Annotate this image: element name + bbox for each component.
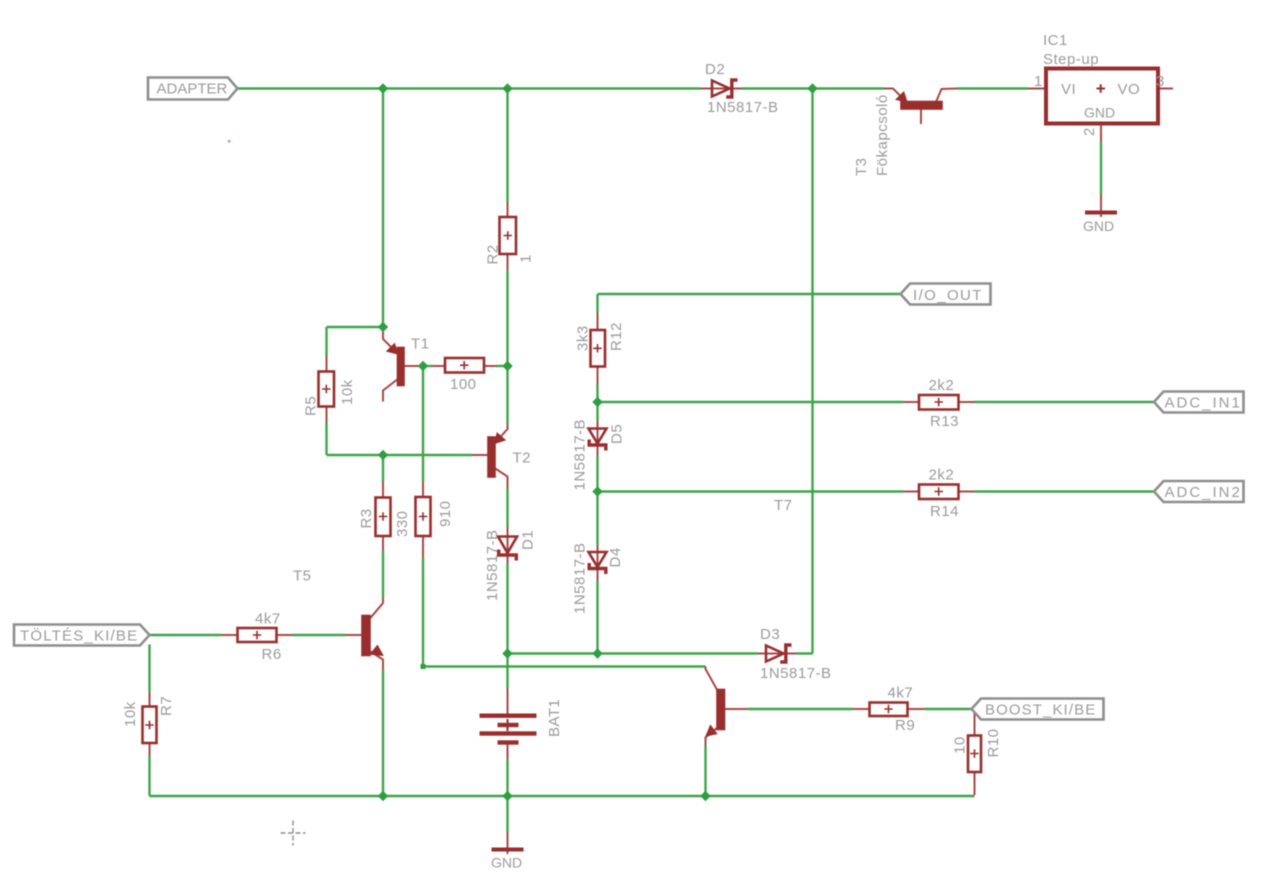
wire vertical x812 <box>811 89 813 654</box>
node junction base row <box>378 450 388 460</box>
wire left column flag down to R7 <box>148 645 150 693</box>
svg-text:D1: D1 <box>520 530 537 550</box>
wire TOLTES flag to R6 <box>150 634 222 636</box>
svg-text:1N5817-B: 1N5817-B <box>707 99 779 116</box>
diode D3 body <box>766 645 792 662</box>
resistor 100 pin left <box>433 365 446 367</box>
svg-text:ADAPTER: ADAPTER <box>157 81 228 98</box>
diode D4 pin bottom <box>597 570 599 582</box>
op-amp IC1 plus sign <box>1097 84 1106 93</box>
resistor R9 body <box>870 703 908 717</box>
transistor T4 body <box>707 690 724 735</box>
svg-text:T7: T7 <box>774 497 793 514</box>
svg-text:Step-up: Step-up <box>1043 51 1099 68</box>
origin dot <box>228 140 230 142</box>
svg-text:1: 1 <box>1034 73 1043 90</box>
svg-text:ADC_IN2: ADC_IN2 <box>1165 484 1242 501</box>
misc marks <box>228 140 306 846</box>
transistor T2 emitter pin <box>495 424 508 444</box>
node junction T1 base <box>418 361 428 371</box>
wire junction366 to T2 emitter <box>506 366 508 424</box>
battery BAT1 pin bottom <box>507 745 509 760</box>
node flag TOLTES_KI/BE <box>14 625 150 646</box>
transistor T5 base pin <box>346 634 363 636</box>
resistor R5 body <box>319 372 335 407</box>
ground pin bottom GND <box>507 832 509 854</box>
svg-text:10k: 10k <box>122 701 139 727</box>
resistor R3 pin top <box>382 482 384 498</box>
wire ADC_IN2 row right <box>975 490 1155 492</box>
transistor T5 body <box>363 616 382 655</box>
diode D5 pin bottom <box>597 446 599 456</box>
diode D1 body <box>498 537 517 561</box>
transistor T1 collector pin <box>383 379 399 402</box>
wire ADC_IN2 row left <box>598 490 904 492</box>
transistor T3 collector pin <box>936 89 957 103</box>
svg-text:330: 330 <box>394 510 411 537</box>
transistor T4 emitter pin <box>706 728 718 747</box>
wire net top: T3 to IC1 pin VI <box>957 87 1028 89</box>
resistor R14 pin left <box>904 491 920 493</box>
wire T4 emitter to rail <box>704 746 706 796</box>
svg-text:2k2: 2k2 <box>929 377 955 394</box>
node flag ADC_IN2 <box>1154 481 1244 502</box>
flags <box>14 78 1244 720</box>
wire junction423 to 910 <box>422 366 424 482</box>
resistor R5 pin top <box>326 356 328 372</box>
node flag BOOST_KI/BE <box>972 699 1104 720</box>
wire R3 to T5 collector <box>382 551 384 599</box>
node flag ADAPTER <box>148 78 238 100</box>
wire junction491 to D4 <box>596 492 598 546</box>
svg-text:1N5817-B: 1N5817-B <box>572 419 589 491</box>
ground pin IC1 GND <box>1100 194 1102 217</box>
svg-text:T1: T1 <box>411 336 430 353</box>
transistor T3 emitter pin <box>884 89 907 103</box>
svg-text:D5: D5 <box>609 424 626 444</box>
resistor R12 body <box>591 330 606 367</box>
wire junction653 to BAT1 <box>506 654 508 689</box>
svg-text:R3: R3 <box>358 508 375 528</box>
transistor T3 base stub <box>920 109 922 125</box>
wire x507 top to R2 <box>506 89 508 203</box>
svg-text:GND: GND <box>491 855 522 871</box>
PINS <box>150 89 1174 855</box>
transistor T4 base pin <box>724 708 747 710</box>
wire vertical x383 top <box>382 89 384 328</box>
node junction BAT top <box>502 648 512 658</box>
svg-text:Fökapcsoló: Fökapcsoló <box>874 94 891 176</box>
svg-text:10k: 10k <box>339 379 356 405</box>
diode D4 body <box>589 552 607 574</box>
wire I/O_OUT horizontal y294 <box>598 293 901 295</box>
node junction ADC_IN2 <box>592 486 602 496</box>
svg-text:GND: GND <box>1083 218 1114 234</box>
resistor R3 pin bottom <box>382 536 384 551</box>
resistor R10 body <box>968 736 981 773</box>
transistor T4 collector pin <box>706 667 718 691</box>
transistor T1 body <box>388 345 403 385</box>
resistor 100 pin right <box>484 365 497 367</box>
svg-text:D3: D3 <box>760 626 780 643</box>
svg-text:VI: VI <box>1061 81 1076 98</box>
origin crosshair <box>281 821 306 846</box>
ground symbol bottom <box>492 848 524 852</box>
svg-text:R10: R10 <box>985 728 1002 757</box>
resistor R13 body <box>919 395 959 410</box>
resistor R5 pin bottom <box>326 407 328 424</box>
svg-text:ADC_IN1: ADC_IN1 <box>1165 395 1242 412</box>
diode D5 body <box>589 429 607 451</box>
wire I/O corner down to R12 <box>596 294 598 313</box>
transistor T5 emitter pin <box>370 651 384 670</box>
resistor R2 body <box>500 217 517 254</box>
transistor T5 collector pin <box>370 598 384 619</box>
svg-text:100: 100 <box>450 376 477 393</box>
svg-text:4k7: 4k7 <box>888 685 914 702</box>
op-amp IC1 pin 3 wire <box>1158 88 1173 90</box>
diode D3 pin right <box>788 653 797 655</box>
ground symbol IC1 <box>1085 211 1117 215</box>
svg-text:D2: D2 <box>705 61 725 78</box>
node junction rail BAT <box>502 791 512 801</box>
svg-text:4k7: 4k7 <box>255 611 281 628</box>
wire 910 down to corner <box>422 558 424 667</box>
wire R2 to junction366 <box>506 271 508 367</box>
transistor T1 base pin <box>404 365 424 367</box>
wire 100 right gap <box>497 365 508 367</box>
wire R9 to BOOST flag <box>925 708 972 710</box>
resistor R10 pin top <box>974 709 976 736</box>
resistor R14 body <box>919 485 959 500</box>
wire base row y455 to T2 <box>327 454 473 456</box>
diode D3 pin left through triangle <box>758 653 785 655</box>
diode D2 body <box>712 80 738 97</box>
wire D3 cathode to corner <box>796 652 813 654</box>
wire BAT1 to rail <box>506 759 508 796</box>
wire horizontal y666 corner to T4 collector <box>423 665 706 667</box>
wire R5 top link <box>327 326 384 328</box>
resistor R2 pin top <box>507 202 509 217</box>
node junction ADC_IN1 <box>592 397 602 407</box>
resistor R9 pin right <box>908 708 925 710</box>
op-amp IC1 pin 1 wire <box>1028 88 1046 90</box>
svg-text:910: 910 <box>437 500 454 527</box>
resistor R6 pin left <box>222 634 238 636</box>
svg-text:1N5817-B: 1N5817-B <box>484 529 501 601</box>
resistor R7 body <box>143 707 157 744</box>
svg-text:1N5817-B: 1N5817-B <box>760 665 832 682</box>
diode D5 pin top through triangle <box>597 421 599 443</box>
node corner cap y666 <box>421 664 426 669</box>
node junction rail T4 <box>700 791 710 801</box>
svg-text:1N5817-B: 1N5817-B <box>572 542 589 614</box>
svg-text:1: 1 <box>518 254 535 263</box>
battery BAT1 <box>480 714 537 745</box>
svg-text:R2: R2 <box>485 244 502 264</box>
svg-text:R5: R5 <box>303 396 320 416</box>
svg-text:D4: D4 <box>607 547 624 567</box>
transistor T2 base pin <box>472 454 489 456</box>
wire 100 left gap <box>423 365 433 367</box>
svg-text:3k3: 3k3 <box>575 325 592 351</box>
svg-text:I/O_OUT: I/O_OUT <box>913 287 983 304</box>
svg-text:R14: R14 <box>930 503 959 520</box>
resistor R9 pin left <box>854 708 870 710</box>
wire rail to GND <box>506 796 508 832</box>
wire R5 bottom stub <box>325 423 327 455</box>
resistor R12 pin bottom <box>597 367 599 385</box>
wire R7 to rail <box>148 756 150 797</box>
resistor R7 pin bottom <box>149 743 151 756</box>
node flag ADC_IN1 <box>1154 392 1244 413</box>
resistor 910 pin top <box>422 482 424 497</box>
wire T4 base to R9 <box>747 708 854 710</box>
svg-text:3: 3 <box>1156 73 1165 90</box>
resistor R6 body <box>238 628 277 642</box>
resistor R6 pin right <box>277 634 293 636</box>
svg-text:2k2: 2k2 <box>929 467 955 484</box>
svg-text:R6: R6 <box>262 646 282 663</box>
resistor R2 pin bottom <box>507 254 509 271</box>
wire D4 to junction653 <box>596 581 598 654</box>
node junction ADAPTER x383 <box>378 83 388 93</box>
resistor 910 pin bottom <box>422 536 424 558</box>
svg-text:R7: R7 <box>158 696 175 716</box>
resistor R13 pin right <box>959 401 975 403</box>
resistor R7 pin top <box>149 692 151 707</box>
svg-text:IC1: IC1 <box>1043 32 1068 49</box>
transistor T2 body <box>489 434 504 476</box>
diode D2 pin left through triangle <box>701 88 731 90</box>
svg-text:BOOST_KI/BE: BOOST_KI/BE <box>985 702 1096 719</box>
node junction ADAPTER x812 <box>807 83 817 93</box>
diode D2 pin right <box>734 88 743 90</box>
resistor R12 pin top <box>597 313 599 331</box>
wire ADC_IN1 row right <box>975 401 1155 403</box>
svg-text:R9: R9 <box>895 717 915 734</box>
transistor T1 emitter pin <box>383 327 399 355</box>
transistor T2 collector pin <box>495 468 508 489</box>
resistor 910 body <box>416 497 431 536</box>
resistor R10 pin bottom <box>974 772 976 795</box>
node junction T1 emitter <box>378 322 388 332</box>
diode D1 pin top through triangle <box>507 527 509 554</box>
wire R5 top stub <box>325 327 327 356</box>
resistor R13 pin left <box>904 401 920 403</box>
svg-text:10: 10 <box>952 736 969 754</box>
svg-text:VO: VO <box>1118 81 1141 98</box>
node junction ADAPTER x507 <box>502 83 512 93</box>
wire R12 to junction402 <box>596 385 598 403</box>
wire IC1 pin2 to GND <box>1100 142 1102 194</box>
wire y653 BAT to D3 <box>508 652 758 654</box>
resistor R14 pin right <box>959 491 975 493</box>
diode D4 pin top through triangle <box>597 546 599 567</box>
svg-text:R12: R12 <box>608 322 625 351</box>
op-amp IC1 pin 2 wire <box>1100 124 1102 142</box>
svg-text:T5: T5 <box>293 568 312 585</box>
wire R6 to T5 base <box>293 634 346 636</box>
wire net ADAPTER top: D2 to T3 <box>742 87 884 89</box>
svg-text:R13: R13 <box>930 413 959 430</box>
svg-text:GND: GND <box>1084 105 1115 121</box>
node junction 100-R2 <box>502 361 512 371</box>
node junction rail T5 <box>378 791 388 801</box>
wire D5 to junction491 <box>596 456 598 492</box>
svg-text:TÖLTÉS_KI/BE: TÖLTÉS_KI/BE <box>20 627 138 645</box>
wire x383 junction to R3 <box>382 455 384 482</box>
wire junction402 to D5 <box>596 402 598 421</box>
op-amp IC1 box <box>1046 69 1158 124</box>
wire net ADAPTER top: flag to D2 <box>238 87 701 89</box>
wire ADC_IN1 row left <box>598 401 904 403</box>
wire D1 to junction653 <box>506 564 508 654</box>
wire T5 emitter to bottom rail <box>382 670 384 797</box>
diode D1 pin bottom <box>507 557 509 564</box>
wire bottom rail <box>150 795 975 797</box>
transistor T3 body <box>898 93 942 108</box>
resistor R3 body <box>376 498 391 537</box>
resistor 100 body <box>445 358 484 373</box>
svg-text:T3: T3 <box>853 157 870 176</box>
svg-text:BAT1: BAT1 <box>546 699 563 737</box>
svg-text:T2: T2 <box>513 450 532 467</box>
wire T2 collector to D1 <box>506 489 508 527</box>
svg-text:2: 2 <box>1081 127 1098 136</box>
battery BAT1 pin top <box>507 689 509 715</box>
node junction D4 bottom <box>592 648 602 658</box>
node flag I/O_OUT <box>901 284 991 305</box>
